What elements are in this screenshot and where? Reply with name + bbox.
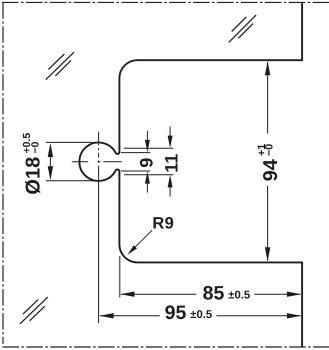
glass hatch bottom-left <box>20 297 48 324</box>
svg-text:95: 95 <box>165 302 187 324</box>
glass hatch top-right <box>229 15 256 42</box>
glass hatch top-left <box>46 52 74 80</box>
dim Ø18: arrows <box>48 143 53 180</box>
svg-text:R9: R9 <box>152 214 174 232</box>
dim 11 arrows <box>168 136 173 188</box>
R9 leader <box>133 230 152 249</box>
svg-text:−0: −0 <box>31 141 42 153</box>
slot dim extension lines <box>124 147 173 149</box>
centerline horizontal through circle <box>72 161 122 163</box>
dim 94: line + arrows <box>267 62 269 134</box>
centerline vertical through circle <box>98 132 100 182</box>
dim Ø18: label <box>22 133 45 195</box>
dim Ø18: extension lines <box>46 141 93 143</box>
svg-text:±0.5: ±0.5 <box>228 289 250 301</box>
extension line: cutout edge down to 85-dim <box>119 256 121 298</box>
dim 94 label <box>256 144 282 182</box>
glass cutout outline (door edge with notch and keyhole) <box>79 2 302 347</box>
svg-text:±0.5: ±0.5 <box>190 309 212 321</box>
svg-text:−0: −0 <box>264 144 276 156</box>
break line left <box>2 2 4 344</box>
svg-text:11: 11 <box>161 154 181 173</box>
svg-text:9: 9 <box>137 158 157 168</box>
svg-text:85: 85 <box>203 283 225 305</box>
extension line: circle centre down to 95-dim <box>98 182 100 324</box>
dim 9 arrows <box>145 140 150 184</box>
break line top <box>2 1 329 3</box>
dim 85 <box>121 293 196 295</box>
dim 95 <box>100 315 160 317</box>
svg-text:94: 94 <box>260 158 282 181</box>
break line bottom <box>3 346 329 348</box>
svg-text:Ø18: Ø18 <box>23 157 45 195</box>
